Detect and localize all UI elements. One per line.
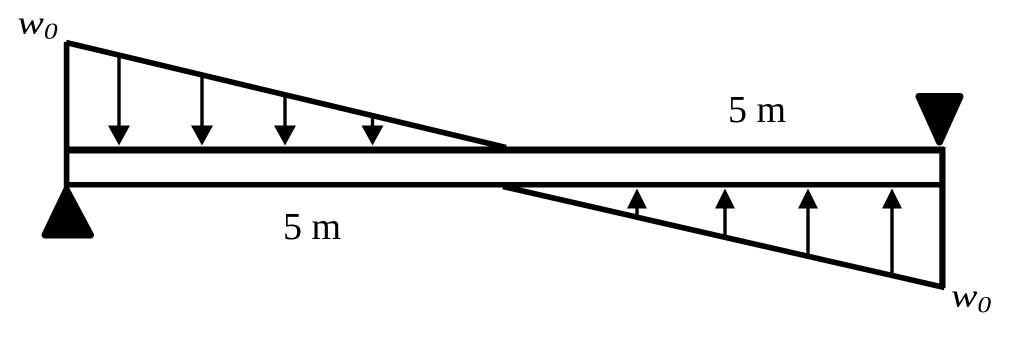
up arrow 3 <box>798 189 818 260</box>
right support (inverted triangle) <box>919 97 960 143</box>
svg-text:w0: w0 <box>18 5 59 45</box>
svg-text:w0: w0 <box>951 278 992 318</box>
beam top chord <box>64 147 944 154</box>
bottom load hypotenuse <box>503 187 945 288</box>
beam bottom chord <box>64 182 944 188</box>
up arrow 1 <box>627 189 647 221</box>
down arrow 4 <box>362 116 384 146</box>
down arrow 2 <box>191 75 213 146</box>
up arrow 2 <box>715 189 735 241</box>
left pin support <box>45 190 91 235</box>
right vertical edge of bottom load triangle <box>939 147 945 288</box>
top load hypotenuse <box>66 43 506 148</box>
svg-text:5 m: 5 m <box>728 89 786 131</box>
svg-text:5 m: 5 m <box>283 206 341 248</box>
up arrow 4 <box>882 189 902 279</box>
down arrow 1 <box>108 56 130 146</box>
left vertical edge of top load triangle <box>64 42 70 189</box>
down arrow 3 <box>274 97 296 146</box>
